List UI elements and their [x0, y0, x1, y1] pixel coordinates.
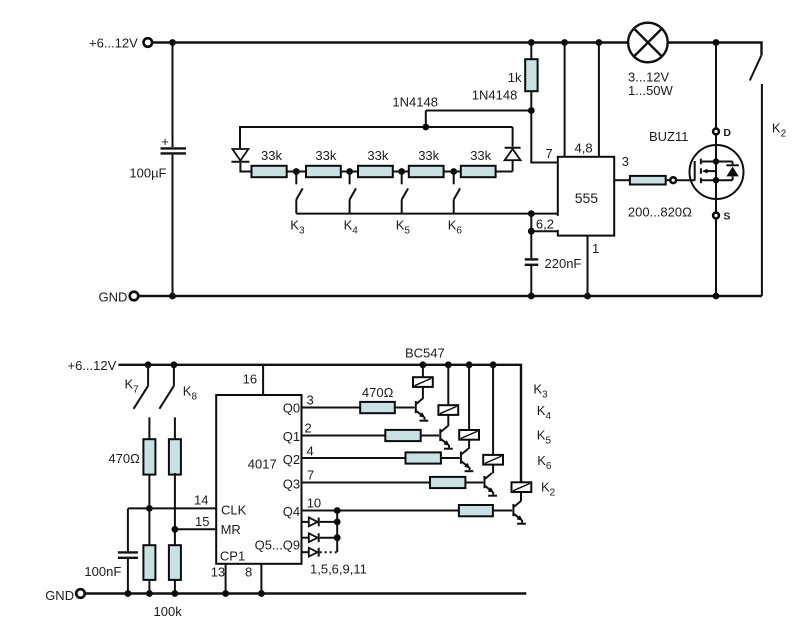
relay coil K3	[413, 377, 433, 387]
svg-text:33k: 33k	[418, 148, 439, 163]
lamp 3...12V 1...50W	[628, 23, 674, 98]
node GND (bottom ground terminal)	[45, 588, 85, 603]
diode Q6 row	[302, 533, 338, 542]
svg-text:K6: K6	[537, 453, 552, 472]
wire 555 pin 8 to rail	[598, 43, 600, 157]
node junction rail/relay2	[445, 361, 452, 368]
switch K2 (power)	[750, 55, 762, 296]
wire pin 13 to gnd	[225, 564, 227, 594]
svg-text:7: 7	[307, 468, 314, 483]
svg-text:10: 10	[307, 495, 321, 510]
svg-text:GND: GND	[99, 290, 128, 305]
wire pin 8 to gnd	[260, 564, 262, 594]
capacitor C 100uF	[129, 43, 186, 297]
resistor 100k right	[169, 545, 181, 580]
svg-text:6,2: 6,2	[536, 217, 554, 232]
node junction gnd/source	[713, 293, 720, 300]
svg-text:8: 8	[245, 564, 252, 579]
node junction rail/1k	[528, 39, 535, 46]
transistor Q1 BC547	[416, 398, 429, 421]
wire collector T3 to relay3	[468, 440, 470, 449]
svg-text:33k: 33k	[315, 148, 336, 163]
wire collector T5 to relay5	[520, 492, 522, 502]
svg-text:Q5...Q9: Q5...Q9	[255, 538, 301, 553]
svg-text:CLK: CLK	[221, 502, 247, 517]
wire Q4 output	[302, 510, 459, 512]
node junction pin2	[528, 228, 535, 235]
node junction gnd/pin1	[584, 293, 591, 300]
svg-text:1: 1	[592, 241, 599, 256]
svg-text:100µF: 100µF	[129, 166, 166, 181]
svg-text:+: +	[161, 134, 169, 149]
node junction gnd/100nF	[125, 590, 132, 597]
relay coil K2	[512, 482, 532, 492]
switch K3	[296, 172, 302, 214]
node junction K6 tap	[450, 168, 457, 175]
switch K5	[402, 172, 408, 214]
wire collector T1 to relay1	[422, 387, 424, 399]
svg-text:CP1: CP1	[220, 549, 245, 564]
resistor 33k #2	[306, 166, 341, 177]
resistor 470 base Q2	[406, 452, 441, 463]
svg-text:7: 7	[546, 146, 553, 161]
svg-text:K5: K5	[396, 218, 411, 237]
node junction gnd/100k-right	[172, 590, 179, 597]
wire switch bus to pin 6	[296, 213, 558, 215]
resistor 470 right	[169, 439, 181, 474]
switch K8	[159, 365, 175, 439]
wire pin 2 stub	[531, 230, 558, 232]
svg-text:13: 13	[211, 564, 225, 579]
svg-text:33k: 33k	[367, 148, 388, 163]
svg-text:16: 16	[243, 372, 257, 387]
wire Q0 output	[302, 407, 361, 409]
wire 555 pin 4 to rail	[564, 43, 566, 157]
resistor 33k #3	[358, 166, 393, 177]
wire pin 16 to rail	[262, 365, 264, 395]
svg-text:K4: K4	[537, 403, 552, 422]
resistor 33k #4	[409, 166, 444, 177]
wire relay4 to rail	[492, 365, 494, 455]
resistor 200...820 gate	[630, 176, 695, 185]
node junction rail/relay3	[466, 361, 473, 368]
svg-text:BC547: BC547	[405, 346, 445, 361]
svg-text:3: 3	[307, 393, 314, 408]
node junction gnd/100k-left	[146, 590, 153, 597]
svg-text:K2: K2	[541, 480, 556, 499]
svg-text:15: 15	[195, 514, 209, 529]
transistor Q2 BC547	[440, 426, 453, 449]
wire right column to MR	[174, 473, 176, 545]
wire Q2 res to base	[441, 457, 460, 459]
node junction feedback	[422, 124, 429, 131]
diode D-right 1N4148	[505, 127, 521, 172]
transistor Q5 BC547	[513, 501, 526, 524]
resistor 470 base Q1	[385, 430, 420, 441]
wire 555 pin 1 to ground	[587, 236, 589, 296]
wire CLK net	[128, 507, 216, 509]
svg-text:Q3: Q3	[283, 476, 300, 491]
svg-text:220nF: 220nF	[545, 256, 582, 271]
svg-text:Q1: Q1	[283, 429, 300, 444]
op-amp/timer U1 555	[553, 157, 614, 236]
diode Q9 row (dashed continuation)	[302, 548, 338, 557]
svg-text:4: 4	[307, 443, 314, 458]
node junction rail/K8	[171, 361, 178, 368]
node junction gnd/220nF	[528, 293, 535, 300]
wire collector T4 to relay4	[492, 465, 494, 474]
wire chain seg3	[393, 171, 409, 173]
svg-text:MR: MR	[221, 522, 241, 537]
switch K4	[350, 172, 356, 214]
node junction rail/K7	[145, 361, 152, 368]
node junction MR	[172, 526, 179, 533]
resistor 470 base Q4	[459, 505, 493, 516]
diode Q5 row	[302, 518, 338, 527]
relay coil K5	[459, 430, 479, 440]
wire bottom supply rail	[118, 365, 521, 483]
wire feedback loop top	[240, 126, 513, 128]
wire relay3 to rail	[468, 365, 470, 430]
svg-text:1k: 1k	[508, 70, 522, 85]
svg-text:D: D	[723, 127, 731, 139]
svg-text:200...820Ω: 200...820Ω	[628, 205, 692, 220]
capacitor C 100nF	[84, 508, 137, 593]
svg-text:K7: K7	[125, 377, 140, 396]
resistor 470 left	[143, 439, 155, 474]
svg-text:555: 555	[575, 190, 599, 206]
wire stub to 1N4148 bus	[425, 111, 427, 128]
wire Q2 output	[302, 457, 406, 459]
node junction rail/relay1	[420, 361, 427, 368]
wire relay2 to rail	[447, 365, 449, 405]
node junction K4 tap	[346, 168, 353, 175]
svg-text:4,8: 4,8	[575, 141, 593, 156]
resistor 470 base Q0	[360, 402, 395, 413]
wire Q1 output	[302, 435, 386, 437]
wire Q0 res to base	[395, 407, 415, 409]
svg-text:4017: 4017	[248, 457, 277, 472]
svg-text:2: 2	[305, 421, 312, 436]
node junction rail/pin8	[596, 39, 603, 46]
svg-text:K5: K5	[537, 428, 552, 447]
svg-text:GND: GND	[45, 588, 74, 603]
wire Q1 res to base	[421, 435, 439, 437]
IC U2 4017	[216, 395, 301, 564]
wire 100k left to gnd	[148, 580, 150, 594]
node junction K3 tap	[293, 168, 300, 175]
svg-text:K2: K2	[772, 121, 787, 140]
svg-text:33k: 33k	[470, 148, 491, 163]
wire top ground rail	[139, 295, 762, 297]
svg-text:+6...12V: +6...12V	[89, 36, 138, 51]
svg-text:1,5,6,9,11: 1,5,6,9,11	[310, 562, 367, 577]
svg-text:1N4148: 1N4148	[472, 88, 518, 103]
wire top supply rail left segment	[153, 41, 629, 43]
svg-text:3: 3	[622, 154, 629, 169]
node +6...12V (top supply terminal)	[89, 36, 152, 51]
node junction CLK	[146, 505, 153, 512]
relay coil K4	[438, 405, 458, 415]
svg-text:K3: K3	[290, 218, 305, 237]
svg-text:K8: K8	[183, 384, 198, 403]
node junction K5 tap	[398, 168, 405, 175]
node junction gnd/pin8	[258, 590, 265, 597]
svg-text:33k: 33k	[261, 148, 282, 163]
svg-text:470Ω: 470Ω	[362, 385, 394, 400]
wire left column to CLK	[148, 475, 150, 546]
node junction bus/220nF	[528, 210, 535, 217]
wire bus down to 220nF	[530, 214, 532, 259]
wire collector T2 to relay2	[447, 415, 449, 427]
transistor Q4 BC547	[485, 473, 498, 496]
wire chain seg4	[444, 171, 461, 173]
resistor 470 base Q3	[430, 477, 465, 488]
wire 1N4148 bus to 1k node	[426, 110, 532, 112]
svg-text:100nF: 100nF	[84, 564, 121, 579]
wire to 555 pin 7	[531, 111, 558, 163]
wire diode bus vertical	[336, 511, 338, 553]
node junction diode2	[334, 534, 341, 541]
svg-text:100k: 100k	[154, 604, 183, 619]
wire Q4 res to base	[493, 510, 512, 512]
svg-text:1N4148: 1N4148	[392, 95, 438, 110]
wire MR net	[175, 528, 216, 530]
svg-text:K3: K3	[533, 381, 548, 400]
wire bottom ground rail	[85, 592, 526, 594]
capacitor C 220nF	[525, 256, 582, 296]
wire top supply rail right segment	[668, 43, 762, 56]
resistor 33k #5	[461, 166, 496, 177]
wire 555 pin 3 output	[614, 179, 630, 181]
node junction rail/relay4	[490, 361, 497, 368]
wire chain seg5 to right diode	[496, 171, 513, 173]
svg-text:Q0: Q0	[283, 401, 300, 416]
transistor Q3 BC547	[461, 449, 474, 472]
resistor 33k #1	[252, 166, 287, 177]
svg-text:Q2: Q2	[283, 452, 300, 467]
resistor 100k left	[143, 545, 155, 580]
node junction diode1	[334, 519, 341, 526]
node junction rail/drain	[713, 39, 720, 46]
node junction Q4/diode bus	[334, 507, 341, 514]
wire Q3 res to base	[465, 482, 483, 484]
svg-text:1...50W: 1...50W	[628, 83, 674, 98]
node junction rail/100uF	[169, 39, 176, 46]
relay coil K6	[483, 455, 503, 465]
wire 100k right to gnd	[174, 580, 176, 594]
switch K7	[134, 365, 150, 439]
switch K6	[454, 172, 460, 214]
node GND (top ground terminal)	[99, 290, 139, 305]
wire relay1 to rail	[422, 365, 424, 377]
node junction gnd/pin13	[222, 590, 229, 597]
diode D-left 1N4148	[231, 126, 251, 172]
svg-text:470Ω: 470Ω	[108, 451, 140, 466]
svg-text:S: S	[723, 211, 730, 223]
wire Q3 output	[302, 482, 431, 484]
wire chain seg2	[341, 171, 358, 173]
svg-text:BUZ11: BUZ11	[649, 129, 689, 144]
svg-text:Q4: Q4	[283, 504, 300, 519]
svg-text:+6...12V: +6...12V	[68, 358, 117, 373]
resistor 1k	[508, 43, 538, 111]
node junction gnd/100uF	[169, 293, 176, 300]
node junction rail/pin4	[561, 39, 568, 46]
svg-text:K4: K4	[344, 218, 359, 237]
svg-text:14: 14	[194, 493, 208, 508]
svg-text:K6: K6	[448, 218, 463, 237]
wire chain seg1	[287, 171, 306, 173]
transistor Q BUZ11 MOSFET	[649, 43, 744, 297]
node junction 1k bottom	[528, 107, 535, 114]
